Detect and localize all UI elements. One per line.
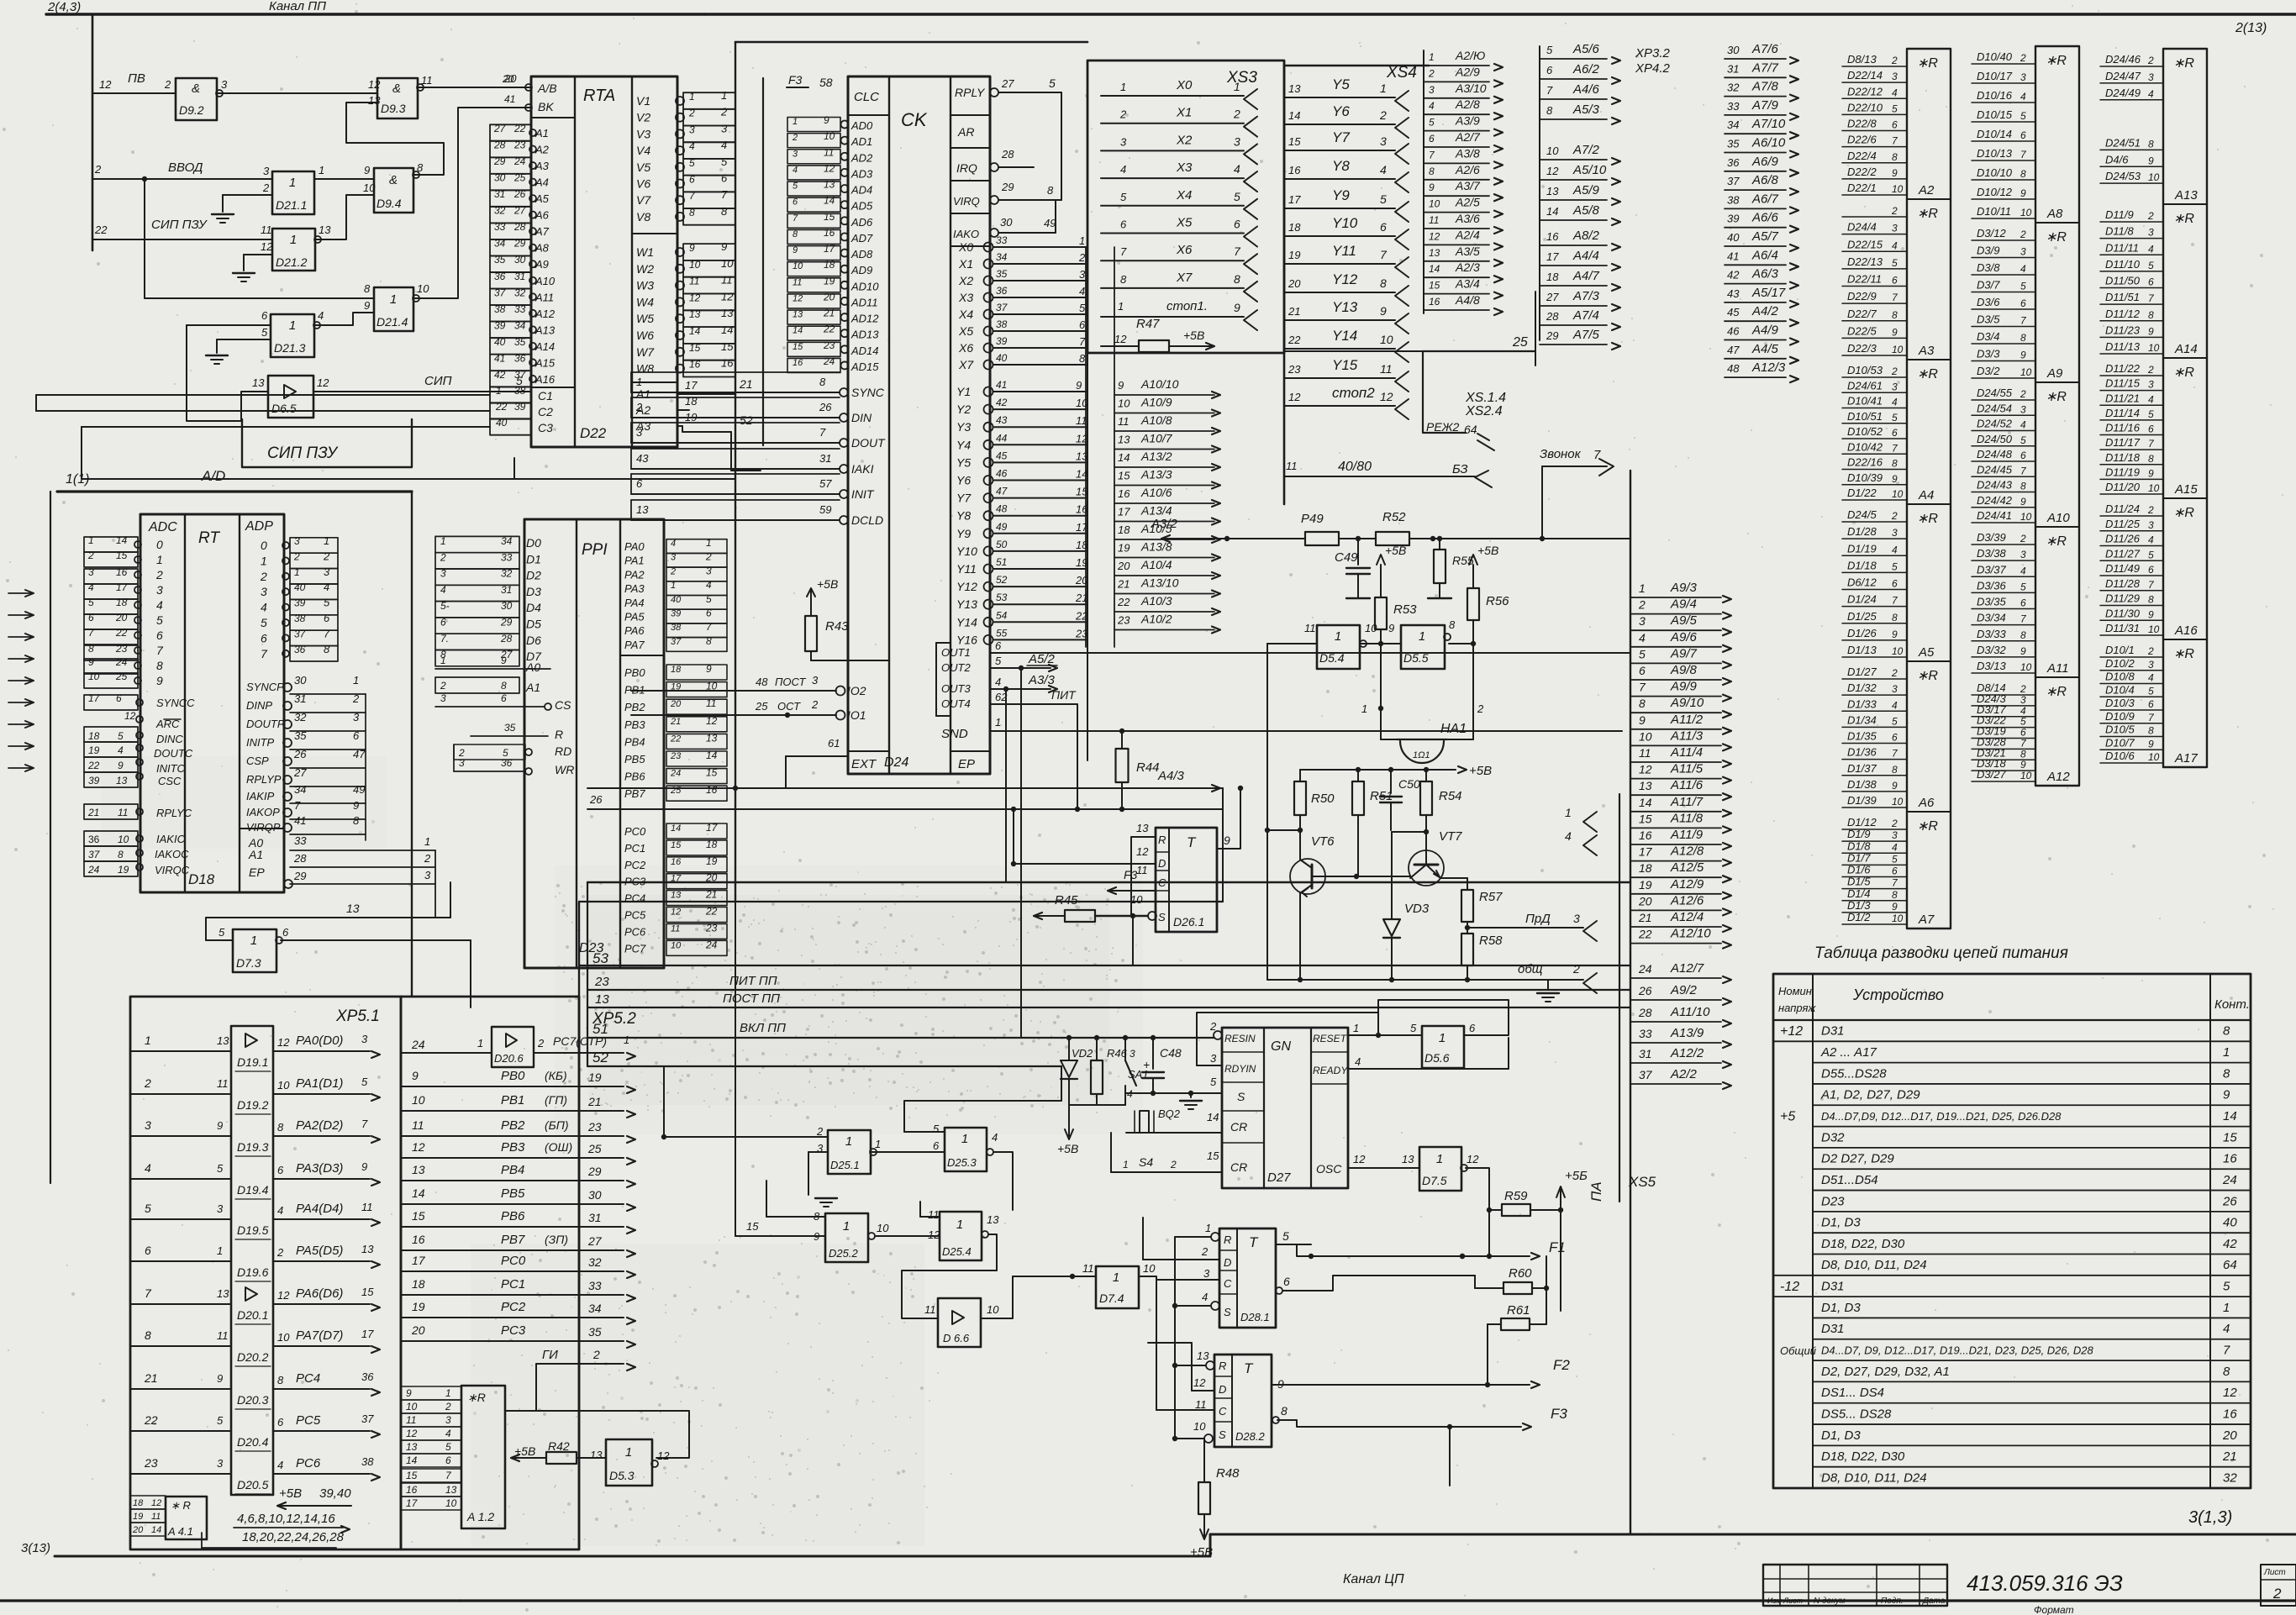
svg-text:3: 3: [1892, 223, 1898, 234]
svg-text:7: 7: [793, 213, 798, 224]
svg-text:2: 2: [2147, 364, 2154, 376]
svg-text:28: 28: [1638, 1006, 1652, 1019]
svg-text:A12/7: A12/7: [1670, 961, 1704, 976]
svg-text:D28.2: D28.2: [1235, 1430, 1265, 1443]
svg-text:2: 2: [2272, 1586, 2282, 1602]
svg-text:9: 9: [1892, 473, 1898, 485]
svg-text:D11/16: D11/16: [2105, 422, 2141, 434]
svg-text:3: 3: [2148, 519, 2154, 531]
svg-text:32: 32: [501, 568, 513, 580]
wire into D21.4 pin8: [145, 297, 374, 299]
svg-text:D11/17: D11/17: [2105, 436, 2141, 449]
svg-text:10: 10: [88, 671, 100, 682]
resistor R52: [1376, 532, 1409, 545]
svg-text:31: 31: [1639, 1047, 1652, 1060]
svg-text:9: 9: [2148, 738, 2154, 750]
svg-text:64: 64: [1464, 423, 1477, 436]
svg-text:14: 14: [151, 1525, 161, 1535]
svg-text:A15: A15: [535, 356, 556, 369]
svg-text:D22/2: D22/2: [1847, 166, 1877, 178]
svg-text:+5В: +5В: [1469, 764, 1492, 778]
svg-text:AD9: AD9: [850, 264, 872, 276]
svg-text:D22/10: D22/10: [1847, 101, 1883, 113]
svg-text:D9.3: D9.3: [381, 102, 406, 115]
svg-text:F3: F3: [788, 73, 803, 87]
svg-text:10: 10: [118, 834, 129, 845]
svg-text:4: 4: [440, 584, 446, 596]
svg-text:10: 10: [2148, 751, 2160, 763]
svg-text:A10/4: A10/4: [1140, 558, 1172, 571]
svg-text:29: 29: [493, 155, 506, 167]
svg-text:35: 35: [494, 254, 506, 266]
svg-text:∗R: ∗R: [2173, 506, 2194, 520]
svg-text:2: 2: [164, 78, 171, 91]
svg-text:4: 4: [1892, 397, 1898, 408]
svg-text:9: 9: [2148, 155, 2154, 166]
svg-text:Y5: Y5: [1332, 76, 1350, 92]
svg-text:D22/3: D22/3: [1847, 342, 1877, 355]
svg-text:A5/3: A5/3: [1572, 103, 1600, 117]
svg-text:A9/9: A9/9: [1670, 680, 1698, 694]
svg-text:13: 13: [217, 1034, 229, 1047]
svg-text:&: &: [192, 82, 200, 96]
svg-text:10: 10: [824, 130, 835, 142]
D26.1 output wire: [1217, 788, 1240, 849]
svg-text:10: 10: [2020, 511, 2032, 523]
svg-text:2: 2: [1891, 55, 1898, 66]
svg-text:19: 19: [1288, 249, 1300, 261]
svg-text:11: 11: [1082, 1262, 1094, 1275]
svg-text:19: 19: [1076, 556, 1087, 569]
svg-text:общ: общ: [1518, 962, 1543, 976]
wire ПВ: [92, 92, 176, 94]
svg-text:3: 3: [217, 1202, 224, 1215]
svg-text:A 4.1: A 4.1: [167, 1525, 193, 1538]
svg-text:10: 10: [1892, 913, 1904, 924]
svg-text:Y7: Y7: [1332, 129, 1350, 145]
svg-text:AD4: AD4: [850, 184, 872, 197]
svg-text:D26.1: D26.1: [1173, 915, 1204, 928]
svg-text:3: 3: [2020, 549, 2026, 560]
svg-text:13: 13: [595, 992, 609, 1007]
svg-text:D24/5: D24/5: [1847, 508, 1877, 521]
svg-text:6: 6: [1892, 427, 1898, 439]
svg-text:21: 21: [705, 889, 717, 901]
svg-text:A4/4: A4/4: [1572, 249, 1599, 263]
ground at D21.2 pin12: [244, 254, 272, 255]
divider line A/D: [57, 490, 412, 492]
svg-text:9: 9: [721, 240, 727, 253]
svg-text:5: 5: [217, 1162, 224, 1175]
svg-text:1: 1: [445, 1387, 451, 1399]
svg-text:CS: CS: [555, 698, 571, 712]
svg-text:9: 9: [2148, 325, 2154, 337]
svg-text:D22/6: D22/6: [1847, 134, 1877, 146]
svg-text:40: 40: [494, 336, 506, 348]
CK EP cell: [951, 750, 990, 752]
signal list A2..A4 column: [1423, 50, 1424, 313]
wire D9.3 output to RTA: [418, 87, 531, 88]
svg-text:4: 4: [2148, 393, 2154, 405]
svg-text:10: 10: [877, 1222, 889, 1234]
svg-text:D2 D27, D29: D2 D27, D29: [1821, 1152, 1894, 1166]
svg-text:28: 28: [293, 852, 307, 865]
svg-text:+5В: +5В: [279, 1486, 302, 1501]
svg-text:13: 13: [1136, 822, 1149, 834]
svg-text:21: 21: [2222, 1449, 2237, 1464]
svg-text:D22/4: D22/4: [1847, 150, 1877, 162]
svg-text:18: 18: [1639, 861, 1652, 875]
svg-text:14: 14: [406, 1455, 418, 1466]
svg-text:DOUT: DOUT: [851, 436, 886, 450]
svg-text:8: 8: [1380, 276, 1387, 290]
svg-text:15: 15: [1207, 1149, 1219, 1162]
svg-text:14: 14: [671, 823, 681, 834]
svg-text:6: 6: [501, 692, 507, 704]
svg-text:D22/11: D22/11: [1847, 273, 1882, 286]
svg-text:26: 26: [2222, 1194, 2237, 1208]
svg-text:&: &: [389, 173, 398, 187]
svg-text:7: 7: [361, 1118, 368, 1130]
svg-text:4: 4: [2020, 263, 2026, 275]
svg-text:6: 6: [1283, 1275, 1290, 1288]
title block grid: [1763, 1565, 1947, 1606]
svg-text:A4/7: A4/7: [1572, 269, 1600, 283]
svg-text:A4/3: A4/3: [1157, 769, 1185, 783]
svg-text:S: S: [1219, 1428, 1226, 1441]
box XS1.4 XS2.4: [1423, 351, 1535, 433]
svg-text:D21.1: D21.1: [276, 198, 307, 212]
svg-text:D3/8: D3/8: [1977, 261, 2000, 274]
svg-text:2: 2: [352, 692, 360, 705]
svg-text:AD10: AD10: [850, 280, 879, 292]
svg-text:∗R: ∗R: [467, 1391, 486, 1404]
svg-text:AD12: AD12: [850, 313, 879, 325]
svg-text:D3/38: D3/38: [1977, 547, 2006, 560]
svg-text:D8, D10, D11, D24: D8, D10, D11, D24: [1821, 1258, 1927, 1272]
svg-text:A6/7: A6/7: [1751, 192, 1779, 206]
svg-text:11: 11: [261, 224, 272, 236]
svg-text:D4...D7,D9, D12...D17, D19...D: D4...D7,D9, D12...D17, D19...D21, D25, D…: [1821, 1110, 2062, 1123]
svg-text:11: 11: [924, 1303, 936, 1316]
svg-text:8: 8: [1892, 458, 1898, 470]
logic gate D5.3: [606, 1439, 652, 1486]
svg-text:23: 23: [587, 1120, 602, 1134]
svg-text:15: 15: [412, 1209, 425, 1223]
wire y1073 horizontal: [579, 901, 1223, 902]
svg-text:AD2: AD2: [850, 151, 873, 164]
svg-text:2: 2: [440, 551, 446, 563]
resistor R48: [1198, 1482, 1210, 1514]
svg-text:C2: C2: [538, 405, 553, 418]
svg-text:23: 23: [823, 339, 835, 351]
svg-text:V8: V8: [636, 210, 650, 224]
svg-text:12: 12: [412, 1140, 425, 1154]
svg-text:D2: D2: [526, 569, 541, 582]
region bottom of CK area: [587, 881, 1630, 883]
svg-text:4: 4: [2148, 243, 2154, 255]
svg-text:3: 3: [2148, 227, 2154, 239]
svg-text:8: 8: [2020, 168, 2026, 180]
svg-text:33: 33: [294, 834, 307, 847]
svg-text:1: 1: [1335, 629, 1341, 644]
svg-text:A9/8: A9/8: [1670, 663, 1698, 677]
resistor R61: [1488, 1323, 1501, 1325]
svg-text:OUT3: OUT3: [941, 682, 971, 695]
svg-text:D24/4: D24/4: [1847, 221, 1877, 234]
svg-text:21: 21: [739, 377, 753, 391]
svg-text:A1: A1: [525, 681, 540, 694]
svg-text:СИП: СИП: [424, 374, 452, 388]
svg-text:D3/13: D3/13: [1977, 660, 2006, 672]
svg-text:D6/12: D6/12: [1847, 576, 1877, 589]
svg-text:2: 2: [816, 1125, 824, 1138]
svg-text:D20.2: D20.2: [237, 1350, 269, 1364]
svg-text:A6/6: A6/6: [1751, 211, 1779, 225]
svg-text:14: 14: [689, 325, 701, 337]
wire D21.4 output to RTA BM: [413, 108, 531, 298]
svg-text:ADP: ADP: [245, 519, 273, 534]
svg-text:D3/34: D3/34: [1977, 612, 2006, 624]
svg-text:X0: X0: [1176, 78, 1193, 92]
svg-text:41: 41: [494, 352, 505, 364]
svg-text:11: 11: [671, 923, 680, 934]
svg-text:W5: W5: [636, 312, 654, 325]
svg-text:D: D: [1158, 857, 1166, 870]
svg-text:D6.5: D6.5: [271, 402, 297, 415]
svg-text:T: T: [1249, 1234, 1259, 1250]
logic gate D25.4: [940, 1212, 982, 1260]
svg-text:11: 11: [793, 277, 802, 287]
svg-text:15: 15: [706, 767, 718, 779]
svg-text:21: 21: [670, 717, 681, 727]
svg-text:33: 33: [494, 221, 506, 233]
svg-text:1: 1: [440, 655, 446, 666]
svg-text:ВВОД: ВВОД: [168, 160, 203, 175]
svg-text:10: 10: [2148, 482, 2160, 494]
svg-text:R53: R53: [1393, 602, 1417, 617]
svg-text:Устройство: Устройство: [1852, 986, 1944, 1003]
svg-text:D4: D4: [526, 601, 541, 614]
svg-text:A10/2: A10/2: [1140, 613, 1172, 626]
T flip-flop D26.1: [1156, 828, 1217, 932]
svg-text:PC5: PC5: [624, 909, 646, 922]
svg-text:11: 11: [217, 1329, 229, 1342]
svg-text:D18, D22, D30: D18, D22, D30: [1821, 1237, 1905, 1251]
svg-text:Y2: Y2: [956, 402, 971, 416]
svg-text:D11/11: D11/11: [2105, 241, 2139, 254]
svg-text:11: 11: [361, 1201, 373, 1213]
resistor R44: [1116, 749, 1129, 782]
svg-text:D4/6: D4/6: [2105, 153, 2129, 166]
svg-text:D3: D3: [526, 585, 541, 598]
svg-text:A11/2: A11/2: [1670, 713, 1704, 727]
svg-text:11: 11: [706, 697, 716, 709]
svg-text:15: 15: [1429, 280, 1440, 292]
svg-text:A5/2: A5/2: [1028, 652, 1056, 666]
svg-text:A12/10: A12/10: [1670, 927, 1711, 941]
svg-text:X4: X4: [1176, 188, 1192, 203]
svg-text:3: 3: [440, 568, 446, 580]
svg-text:7: 7: [156, 644, 164, 657]
RT IAKIC IAKOC VIRQC rows: [84, 831, 138, 846]
svg-text:55: 55: [996, 627, 1008, 639]
svg-text:Y9: Y9: [1332, 187, 1350, 203]
svg-text:16: 16: [824, 227, 835, 239]
svg-text:RDYIN: RDYIN: [1224, 1063, 1256, 1075]
svg-text:34: 34: [588, 1302, 602, 1315]
svg-text:D24/51: D24/51: [2105, 136, 2141, 149]
svg-text:9: 9: [1224, 834, 1230, 847]
resistor R51: [1352, 781, 1364, 815]
svg-text:ПИТ: ПИТ: [1051, 688, 1077, 702]
svg-text:12: 12: [99, 78, 112, 91]
svg-text:AD7: AD7: [850, 232, 873, 245]
svg-text:A6/9: A6/9: [1751, 155, 1779, 169]
svg-text:5: 5: [118, 730, 124, 742]
svg-text:51: 51: [592, 1021, 608, 1037]
svg-text:20: 20: [705, 872, 718, 884]
VD3 wires: [1391, 832, 1393, 919]
svg-text:Y3: Y3: [956, 420, 971, 434]
svg-text:1: 1: [843, 1219, 850, 1234]
svg-text:A6/2: A6/2: [1572, 62, 1600, 76]
svg-text:25: 25: [587, 1142, 602, 1155]
D28.1 input wires: [1175, 1236, 1211, 1238]
power table box: [1773, 974, 2251, 1488]
svg-text:D19.1: D19.1: [237, 1055, 268, 1069]
svg-text:17: 17: [706, 822, 719, 834]
svg-text:C50: C50: [1398, 777, 1420, 791]
svg-text:5: 5: [219, 926, 225, 939]
svg-text:D3/3: D3/3: [1977, 348, 2000, 360]
svg-text:2: 2: [424, 852, 431, 865]
svg-text:14: 14: [412, 1186, 425, 1200]
svg-text:OUT2: OUT2: [941, 661, 971, 674]
svg-text:PC7: PC7: [624, 942, 646, 955]
svg-text:4: 4: [1429, 100, 1435, 112]
svg-text:4: 4: [277, 1459, 283, 1471]
svg-text:12: 12: [2223, 1386, 2237, 1400]
C49 ground: [1346, 597, 1370, 599]
svg-text:2: 2: [688, 108, 695, 119]
logic gate D25.2: [825, 1213, 868, 1262]
wire y963: [587, 808, 1223, 810]
wire D21.3 to D21.4 pin9: [314, 313, 374, 325]
svg-text:34: 34: [996, 251, 1008, 263]
svg-text:9: 9: [364, 299, 370, 312]
svg-text:23: 23: [1288, 363, 1301, 376]
svg-text:D1/28: D1/28: [1847, 525, 1877, 538]
svg-text:3: 3: [217, 1457, 224, 1470]
svg-text:41: 41: [1727, 250, 1739, 262]
svg-text:16: 16: [1429, 296, 1440, 308]
vertical feeds left of D28: [1142, 1218, 1144, 1260]
svg-text:A12/4: A12/4: [1670, 910, 1704, 924]
svg-text:2: 2: [262, 181, 270, 194]
sheet border top line: [46, 13, 2296, 15]
svg-text:XS.1.4: XS.1.4: [1465, 391, 1506, 405]
svg-text:A3/4: A3/4: [1455, 277, 1480, 291]
svg-text:2: 2: [293, 550, 300, 562]
CK EXT cell: [848, 750, 889, 752]
svg-text:6: 6: [116, 692, 122, 704]
buffer triangle D20.1: [245, 1287, 257, 1301]
svg-text:29: 29: [587, 1165, 602, 1178]
frame box СИП ПЗУ: [242, 419, 412, 467]
svg-text:3: 3: [361, 1033, 368, 1045]
D27 RESET to D5.6: [1348, 1034, 1422, 1036]
svg-text:7: 7: [1079, 335, 1086, 348]
svg-text:A13: A13: [535, 324, 556, 336]
svg-text:3: 3: [445, 1414, 451, 1426]
svg-text:413.059.316 ЭЗ: 413.059.316 ЭЗ: [1967, 1570, 2123, 1596]
svg-text:A12/6: A12/6: [1670, 893, 1704, 907]
svg-text:13: 13: [636, 503, 649, 516]
svg-text:2: 2: [1891, 510, 1898, 522]
svg-text:A4/5: A4/5: [1751, 342, 1779, 356]
svg-text:16: 16: [1288, 164, 1301, 176]
svg-text:37: 37: [361, 1412, 374, 1425]
connector XP5.1 box: [130, 997, 401, 1549]
svg-text:10: 10: [1380, 333, 1393, 346]
svg-text:1: 1: [2223, 1045, 2230, 1060]
svg-text:3: 3: [671, 553, 677, 563]
ground at D21.1 pin2: [249, 194, 272, 196]
svg-text:5: 5: [2148, 685, 2154, 697]
svg-text:34: 34: [294, 783, 306, 796]
svg-text:1: 1: [625, 1445, 632, 1460]
svg-text:11: 11: [1136, 864, 1148, 876]
svg-text:+5B: +5B: [817, 577, 838, 591]
svg-text:DS5... DS28: DS5... DS28: [1821, 1407, 1892, 1421]
ground at D21.3 pin5: [244, 339, 271, 340]
svg-text:38: 38: [1727, 193, 1740, 206]
svg-text:3: 3: [706, 565, 712, 576]
svg-text:9: 9: [364, 164, 370, 176]
svg-text:17: 17: [406, 1497, 419, 1509]
svg-text:1: 1: [1361, 702, 1367, 715]
svg-text:D1/5: D1/5: [1847, 876, 1871, 888]
svg-text:AD14: AD14: [850, 345, 879, 357]
svg-text:D51...D54: D51...D54: [1821, 1173, 1878, 1187]
svg-text:1: 1: [875, 1138, 881, 1150]
svg-text:D10/14: D10/14: [1977, 128, 2012, 140]
svg-text:8: 8: [277, 1121, 284, 1134]
svg-text:11: 11: [1380, 362, 1393, 376]
svg-text:D1/36: D1/36: [1847, 746, 1877, 759]
svg-text:22: 22: [87, 760, 100, 771]
signal list A5..A7 column: [1539, 46, 1540, 340]
svg-text:+5В: +5В: [1385, 544, 1406, 557]
svg-text:6: 6: [2148, 423, 2154, 435]
svg-text:D20.3: D20.3: [237, 1393, 269, 1407]
svg-text:18: 18: [824, 259, 835, 271]
svg-text:20: 20: [132, 1525, 144, 1535]
svg-text:INITP: INITP: [246, 736, 275, 749]
svg-text:A12: A12: [535, 308, 556, 320]
svg-text:42: 42: [1727, 269, 1740, 281]
bus vertical left of CK: [735, 42, 736, 902]
svg-text:35: 35: [294, 729, 307, 742]
svg-text:PA4: PA4: [624, 597, 645, 609]
svg-text:DOUTC: DOUTC: [154, 747, 193, 760]
svg-text:11: 11: [1286, 460, 1298, 472]
svg-text:6: 6: [88, 612, 94, 623]
svg-text:DINC: DINC: [156, 733, 183, 745]
svg-text:V7: V7: [636, 193, 651, 207]
svg-text:DS1... DS4: DS1... DS4: [1821, 1386, 1884, 1400]
